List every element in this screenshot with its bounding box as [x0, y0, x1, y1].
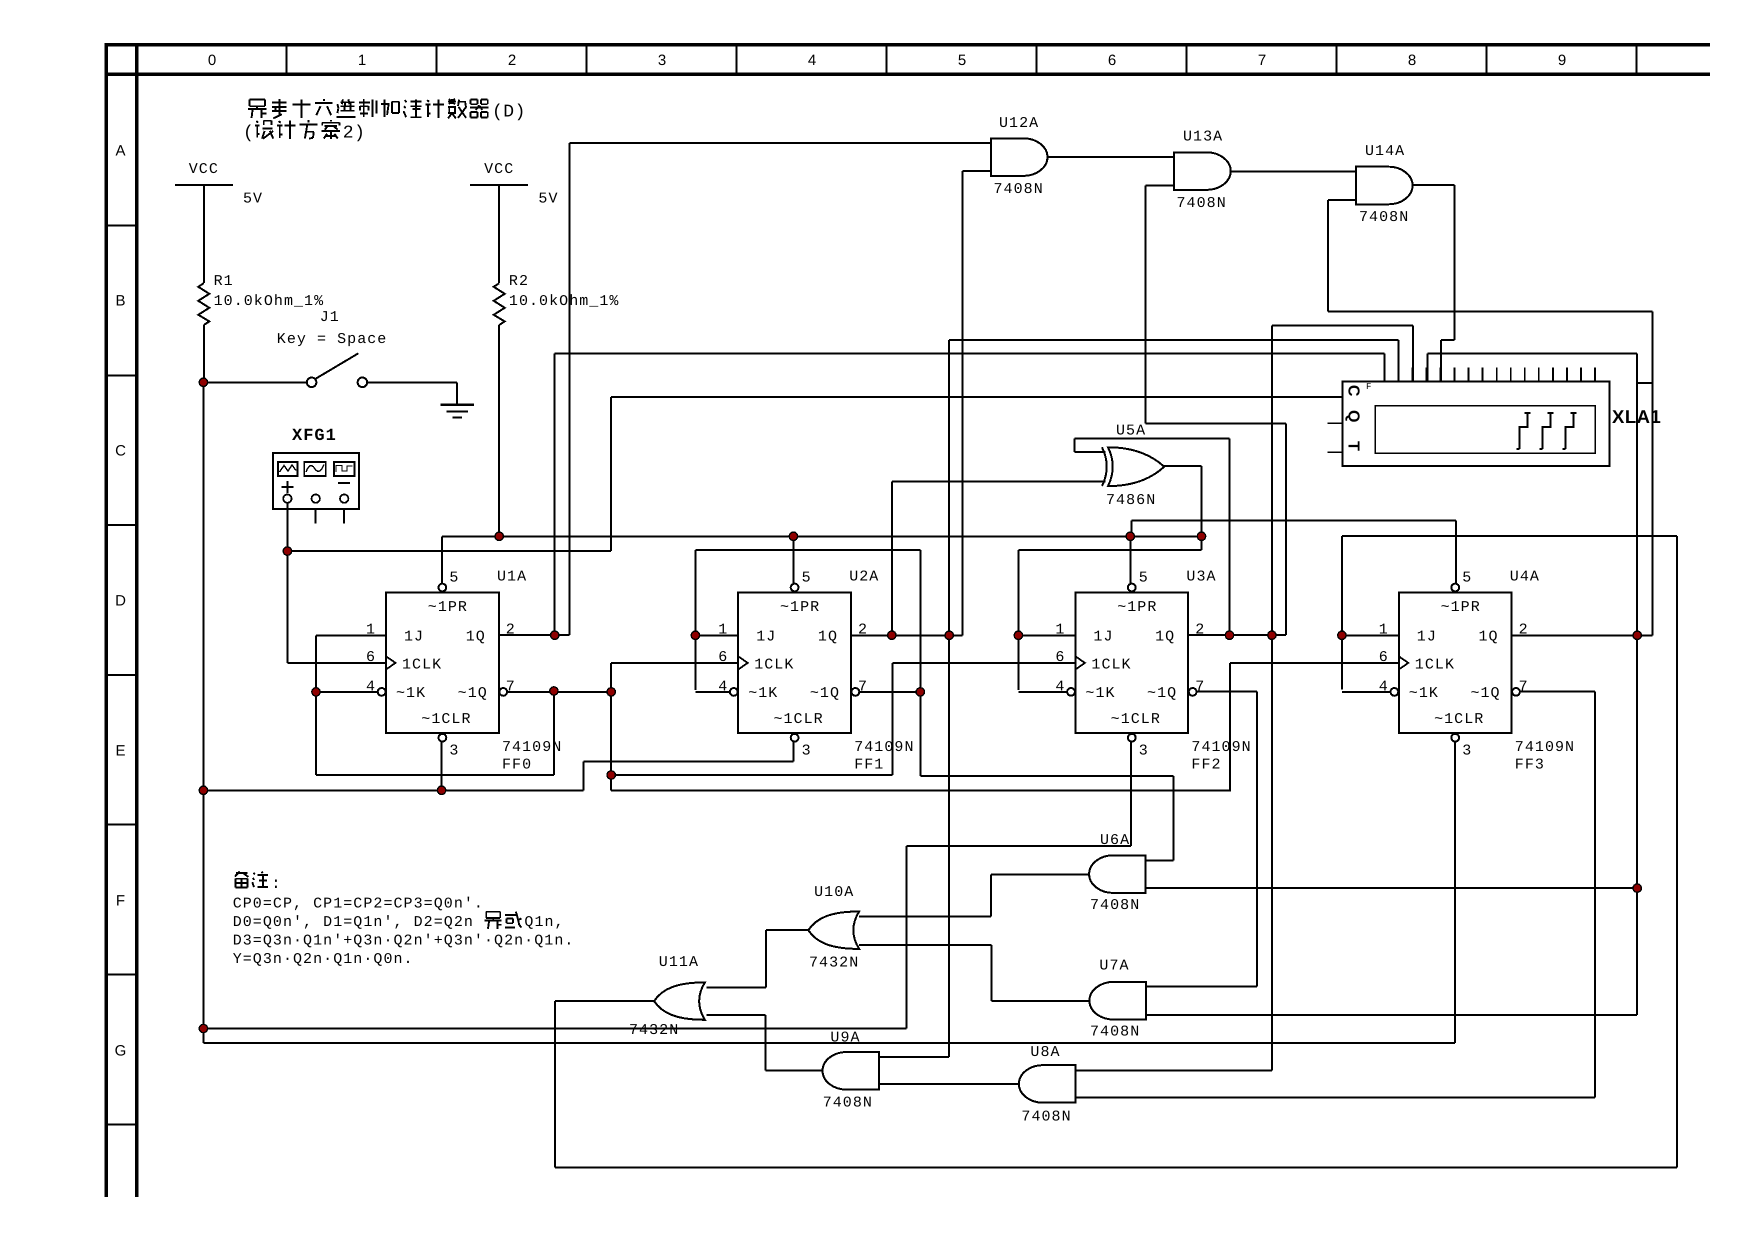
svg-text:2): 2)	[343, 124, 366, 144]
svg-text:Q: Q	[1345, 410, 1362, 422]
svg-text:~1PR: ~1PR	[1117, 599, 1157, 616]
svg-text:E: E	[115, 743, 125, 760]
svg-text:~1K: ~1K	[396, 685, 426, 702]
svg-text:~1PR: ~1PR	[780, 599, 820, 616]
svg-text:XFG1: XFG1	[292, 427, 337, 446]
svg-text:1J: 1J	[1417, 628, 1437, 645]
svg-text:74109N: 74109N	[1191, 739, 1251, 756]
svg-text:5: 5	[1462, 569, 1472, 586]
svg-text:~1CLR: ~1CLR	[773, 711, 823, 728]
svg-text:D: D	[115, 593, 126, 610]
svg-text:7408N: 7408N	[1177, 195, 1227, 212]
svg-text:7432N: 7432N	[809, 954, 859, 971]
svg-text:U4A: U4A	[1510, 569, 1540, 586]
svg-text:C: C	[115, 443, 126, 460]
svg-text:3: 3	[1462, 743, 1472, 760]
svg-text:~1Q: ~1Q	[1470, 685, 1500, 702]
svg-text:F: F	[116, 893, 125, 910]
svg-text:T: T	[1345, 441, 1362, 451]
svg-text:A: A	[115, 143, 125, 160]
svg-text:J1: J1	[320, 309, 340, 326]
svg-text:3: 3	[658, 52, 666, 69]
svg-text:R1: R1	[214, 273, 234, 290]
svg-text:Y=Q3n·Q2n·Q1n·Q0n.: Y=Q3n·Q2n·Q1n·Q0n.	[233, 951, 414, 968]
svg-text:FF2: FF2	[1191, 757, 1221, 774]
svg-text:1Q: 1Q	[1155, 628, 1175, 645]
svg-text:3: 3	[449, 743, 459, 760]
svg-text:7408N: 7408N	[1021, 1109, 1071, 1126]
svg-text:74109N: 74109N	[854, 739, 914, 756]
svg-text:U2A: U2A	[849, 569, 879, 586]
svg-text:5: 5	[802, 569, 812, 586]
svg-text:~1Q: ~1Q	[810, 685, 840, 702]
svg-text:~1PR: ~1PR	[428, 599, 468, 616]
svg-text:1Q: 1Q	[1478, 628, 1498, 645]
svg-text:CP0=CP, CP1=CP2=CP3=Q0n'.: CP0=CP, CP1=CP2=CP3=Q0n'.	[233, 896, 484, 913]
svg-text:7408N: 7408N	[1090, 897, 1140, 914]
svg-text:Key = Space: Key = Space	[277, 331, 388, 348]
svg-text:~1Q: ~1Q	[1147, 685, 1177, 702]
svg-text:5: 5	[449, 569, 459, 586]
svg-text::: :	[271, 875, 281, 893]
svg-text:7408N: 7408N	[823, 1095, 873, 1112]
svg-text:U13A: U13A	[1183, 129, 1223, 146]
svg-text:7408N: 7408N	[1359, 209, 1409, 226]
svg-text:7408N: 7408N	[994, 181, 1044, 198]
svg-text:D3=Q3n·Q1n'+Q3n·Q2n'+Q3n'·Q2n·: D3=Q3n·Q1n'+Q3n·Q2n'+Q3n'·Q2n·Q1n.	[233, 933, 575, 950]
svg-text:Q1n,: Q1n,	[524, 914, 564, 931]
svg-text:G: G	[115, 1043, 127, 1060]
svg-text:FF1: FF1	[854, 757, 884, 774]
svg-text:~1K: ~1K	[1085, 685, 1115, 702]
svg-text:4: 4	[808, 52, 816, 69]
svg-text:~1CLR: ~1CLR	[421, 711, 471, 728]
svg-text:3: 3	[802, 743, 812, 760]
svg-text:7408N: 7408N	[1090, 1024, 1140, 1041]
svg-text:74109N: 74109N	[1515, 739, 1575, 756]
svg-text:U12A: U12A	[999, 115, 1039, 132]
svg-text:8: 8	[1408, 52, 1416, 69]
svg-text:10.0kOhm_1%: 10.0kOhm_1%	[509, 293, 620, 310]
svg-text:0: 0	[208, 52, 216, 69]
svg-text:U3A: U3A	[1186, 569, 1216, 586]
svg-text:6: 6	[1108, 52, 1116, 69]
svg-text:5: 5	[1139, 569, 1149, 586]
svg-text:U5A: U5A	[1116, 423, 1146, 440]
svg-text:1Q: 1Q	[818, 628, 838, 645]
svg-text:~1Q: ~1Q	[458, 685, 488, 702]
svg-text:U10A: U10A	[814, 884, 854, 901]
svg-text:(: (	[243, 124, 254, 144]
svg-text:1CLK: 1CLK	[754, 656, 794, 673]
svg-text:1: 1	[358, 52, 366, 69]
svg-text:3: 3	[1139, 743, 1149, 760]
svg-text:7: 7	[1258, 52, 1266, 69]
svg-text:9: 9	[1558, 52, 1566, 69]
svg-text:1CLK: 1CLK	[402, 656, 442, 673]
svg-text:1CLK: 1CLK	[1415, 656, 1455, 673]
svg-text:~1CLR: ~1CLR	[1434, 711, 1484, 728]
svg-text:R2: R2	[509, 273, 529, 290]
svg-text:FF0: FF0	[502, 757, 532, 774]
svg-text:10.0kOhm_1%: 10.0kOhm_1%	[214, 293, 325, 310]
svg-text:U7A: U7A	[1099, 958, 1129, 975]
svg-text:~1PR: ~1PR	[1441, 599, 1481, 616]
svg-text:1J: 1J	[756, 628, 776, 645]
svg-text:5V: 5V	[538, 191, 558, 208]
svg-text:VCC: VCC	[189, 161, 219, 178]
svg-text:F: F	[1366, 382, 1371, 392]
svg-text:7: 7	[1519, 678, 1529, 695]
svg-text:VCC: VCC	[484, 161, 514, 178]
svg-text:1J: 1J	[1093, 628, 1113, 645]
svg-text:7486N: 7486N	[1106, 492, 1156, 509]
svg-text:~1CLR: ~1CLR	[1111, 711, 1161, 728]
svg-text:U9A: U9A	[830, 1030, 860, 1047]
svg-text:7: 7	[1195, 678, 1205, 695]
svg-text:1CLK: 1CLK	[1091, 656, 1131, 673]
svg-text:~1K: ~1K	[748, 685, 778, 702]
svg-text:(D): (D)	[492, 103, 526, 123]
svg-text:D0=Q0n', D1=Q1n', D2=Q2n: D0=Q0n', D1=Q1n', D2=Q2n	[233, 914, 474, 931]
svg-text:FF3: FF3	[1515, 757, 1545, 774]
svg-text:U1A: U1A	[497, 569, 527, 586]
svg-text:C: C	[1345, 385, 1362, 397]
svg-text:~1K: ~1K	[1409, 685, 1439, 702]
svg-text:5: 5	[958, 52, 966, 69]
svg-text:7432N: 7432N	[629, 1022, 679, 1039]
svg-text:5V: 5V	[243, 191, 263, 208]
svg-text:1Q: 1Q	[466, 628, 486, 645]
svg-text:2: 2	[508, 52, 516, 69]
svg-text:1J: 1J	[404, 628, 424, 645]
svg-text:U8A: U8A	[1030, 1044, 1060, 1061]
svg-text:U14A: U14A	[1365, 143, 1405, 160]
svg-text:U11A: U11A	[659, 954, 699, 971]
svg-text:B: B	[115, 293, 125, 310]
